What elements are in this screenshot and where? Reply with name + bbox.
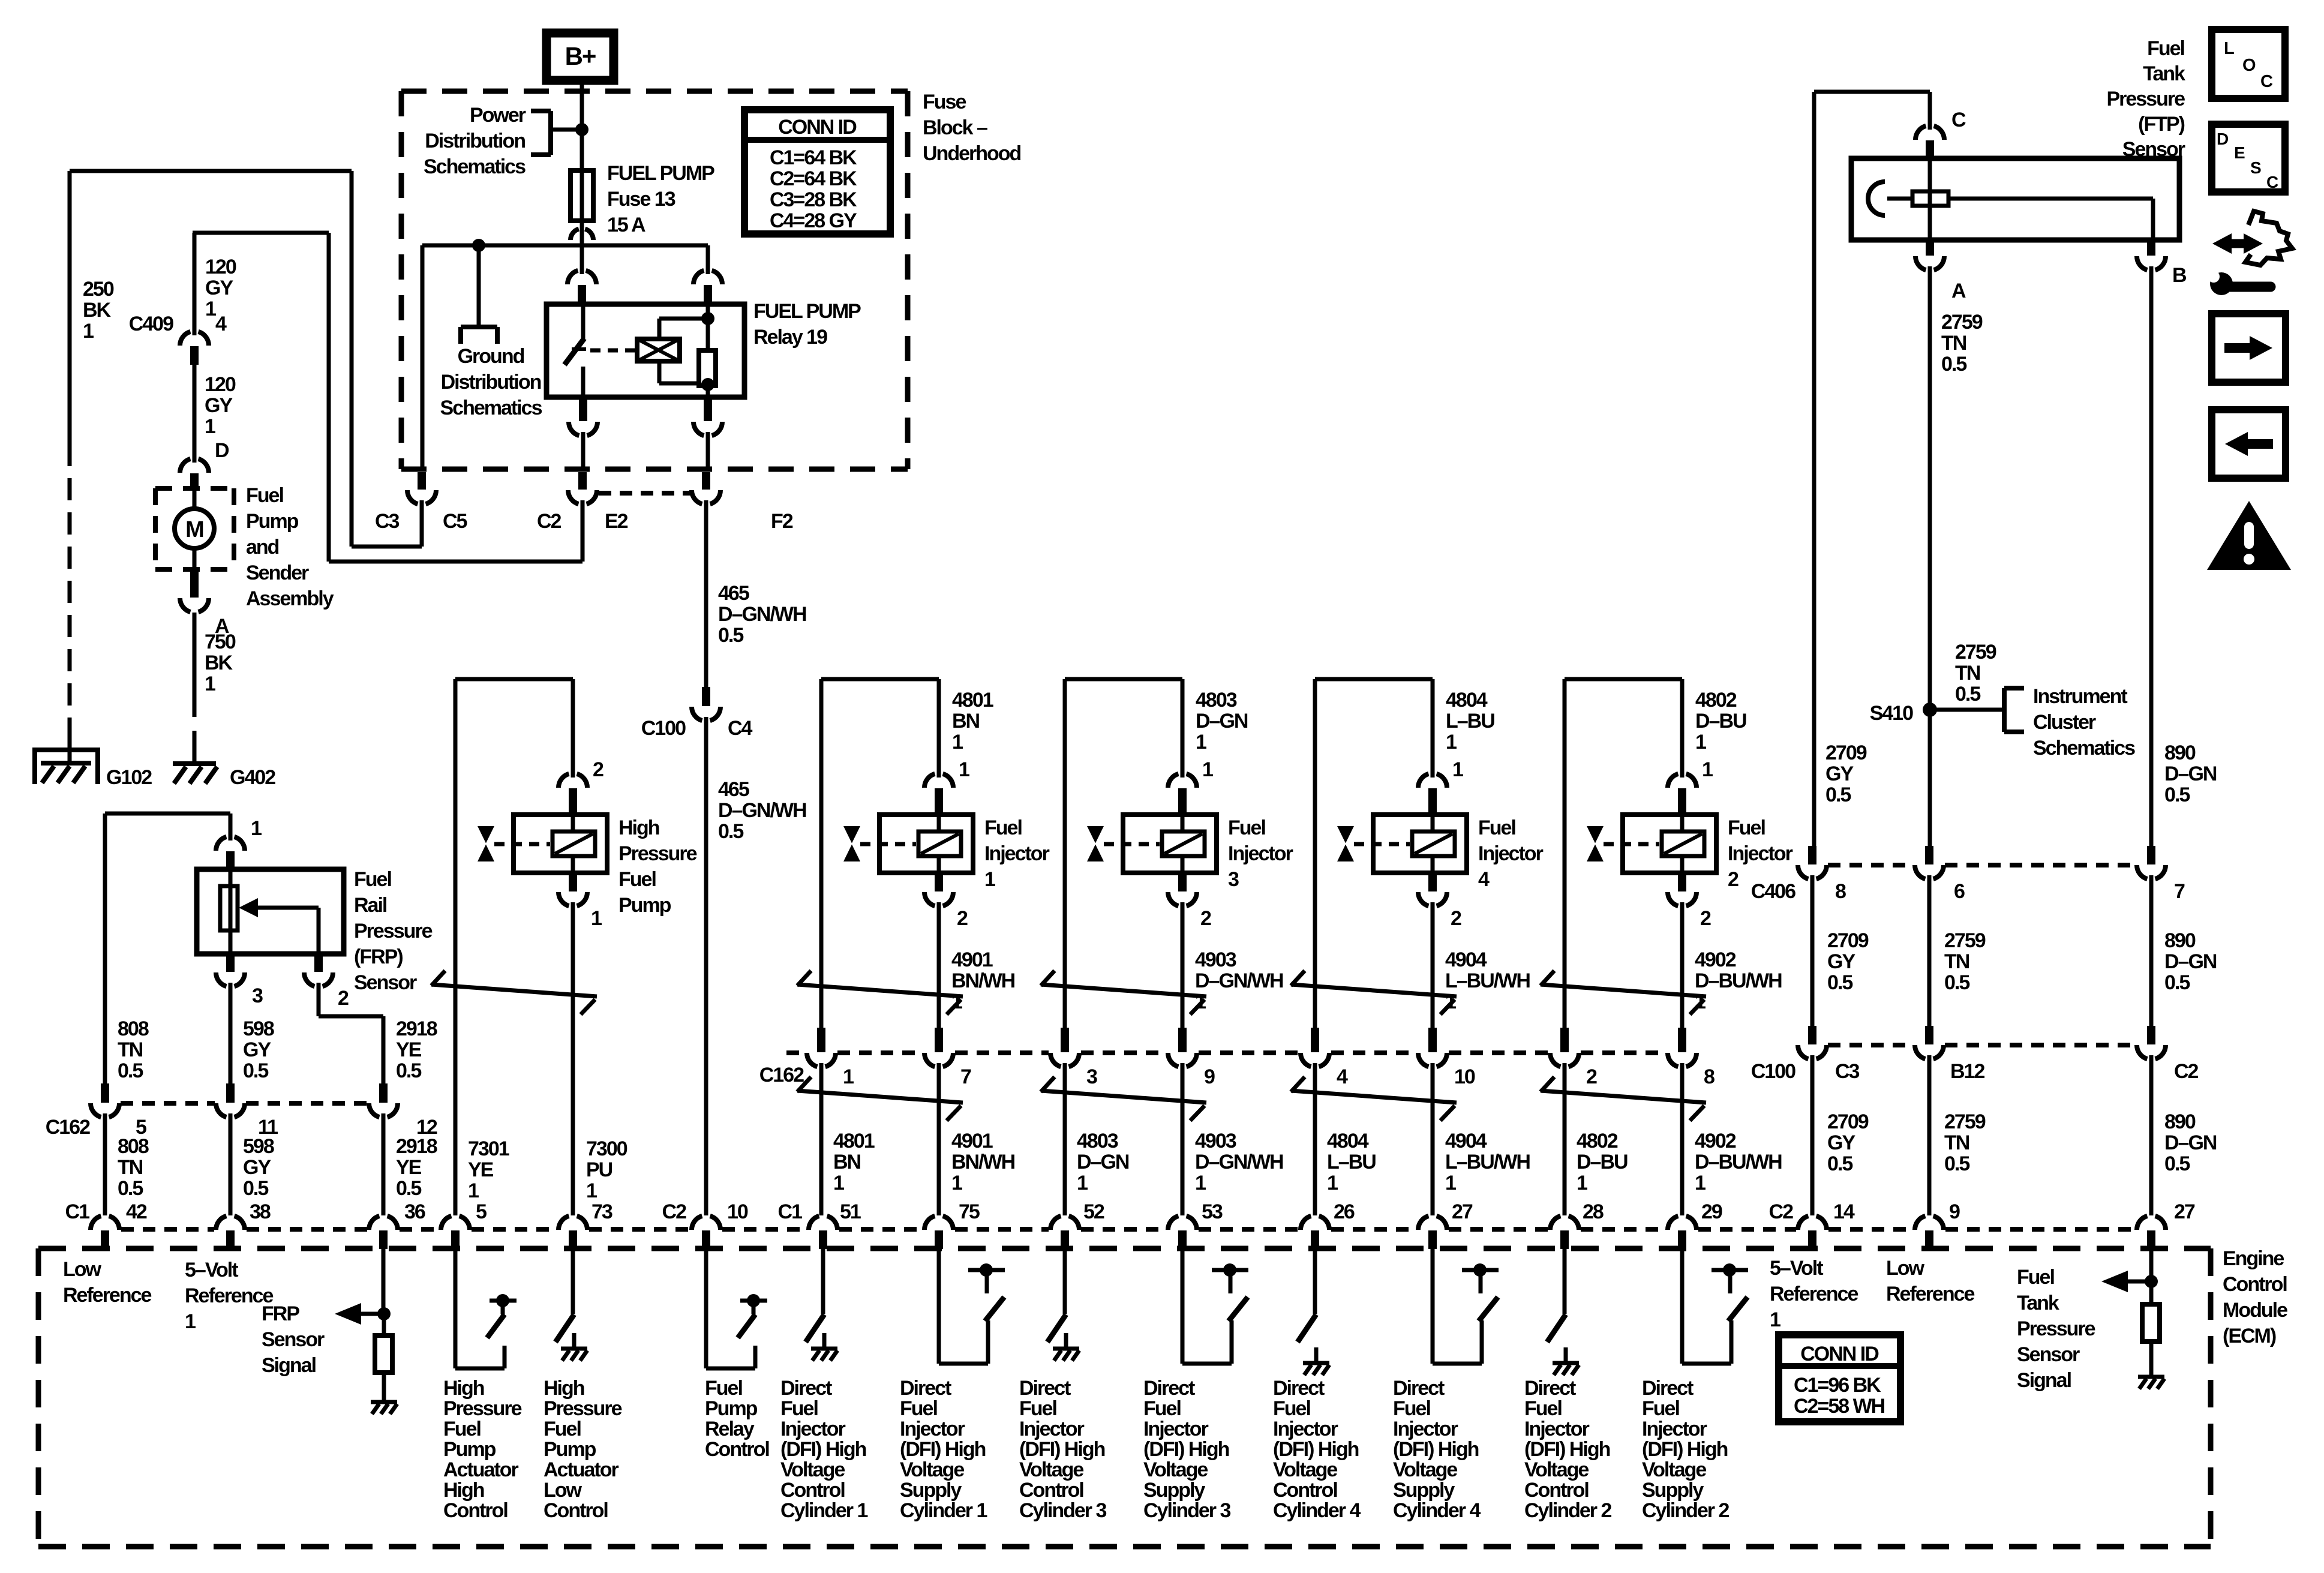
svg-text:C3=28 BK: C3=28 BK xyxy=(770,188,857,211)
label 465 D-GN/WH 0.5 lower xyxy=(718,778,806,843)
label ECM function High Pressure Fuel Control xyxy=(443,1377,522,1522)
svg-text:2: 2 xyxy=(1700,907,1711,930)
svg-text:2709: 2709 xyxy=(1827,1110,1869,1133)
connector C162 pin 4 xyxy=(1311,1028,1319,1052)
svg-text:1: 1 xyxy=(843,1065,854,1088)
wire 4903 injector 3 supply lower xyxy=(1181,1067,1185,1215)
valve actuation dashed link xyxy=(860,842,916,846)
fuse block - underhood dashed boundary xyxy=(401,91,908,469)
svg-text:C409: C409 xyxy=(129,313,173,335)
svg-text:Fuel: Fuel xyxy=(1642,1397,1679,1420)
svg-text:Fuel: Fuel xyxy=(618,868,656,891)
Fuel Injector 4 coil box xyxy=(1373,815,1467,873)
wire loop for Fuel 2 left side xyxy=(1565,679,1682,773)
svg-text:Injector: Injector xyxy=(1143,1418,1209,1440)
ECM supply driver switch at pin wire x=1565 xyxy=(939,1249,1005,1364)
relay suppression resistor xyxy=(699,350,716,386)
svg-text:(DFI) High: (DFI) High xyxy=(1143,1438,1229,1461)
svg-text:BK: BK xyxy=(205,652,233,674)
svg-text:4804: 4804 xyxy=(1327,1130,1369,1152)
svg-text:52: 52 xyxy=(1083,1200,1104,1223)
svg-text:Low: Low xyxy=(1886,1257,1925,1280)
label ECM function Fuel Pump Relay Control xyxy=(705,1377,769,1461)
label FUEL PUMP Relay 19 xyxy=(753,300,861,349)
svg-text:and: and xyxy=(246,536,279,559)
relay 19 switch side terminal connector xyxy=(568,271,578,284)
svg-text:Injector: Injector xyxy=(1273,1418,1338,1440)
ground distribution stub and bracket xyxy=(461,245,497,344)
svg-text:C3: C3 xyxy=(375,510,400,533)
ECM connectors at boundary xyxy=(91,1216,2166,1249)
wire 4802 injector 2 control lower xyxy=(1563,1067,1567,1215)
label 4902 D–BU/WH 1 lower xyxy=(1695,1130,1782,1194)
wire 598 GY from FRP pin 3 xyxy=(229,987,233,1083)
svg-text:Injector: Injector xyxy=(900,1418,965,1440)
wire loop for Fuel 1 left side xyxy=(821,679,939,773)
svg-text:D–BU: D–BU xyxy=(1577,1151,1628,1173)
ECM supply driver switch at pin wire x=2804 xyxy=(1682,1249,1748,1364)
wire B+ to fuse 13 xyxy=(580,80,584,170)
svg-text:1: 1 xyxy=(586,1179,597,1202)
connector C162 pin 9 xyxy=(1178,1028,1187,1052)
wire 2759 TN pin A down xyxy=(1928,271,1932,846)
label ECM function Direct Fuel Injector Cylinder 3 xyxy=(1019,1377,1106,1522)
label Fuel Injector 2 xyxy=(1728,816,1793,891)
svg-text:38: 38 xyxy=(250,1200,271,1223)
svg-text:Ground: Ground xyxy=(458,345,524,368)
svg-text:2: 2 xyxy=(1200,907,1211,930)
ECM control driver switch to ground at pin wire x=955 xyxy=(556,1249,587,1361)
label 2709 GY 0.5 mid xyxy=(1827,929,1869,994)
label Fuel Injector 3 xyxy=(1228,816,1293,891)
label 250 BK 1 xyxy=(83,278,114,343)
svg-text:GY: GY xyxy=(1827,950,1855,973)
svg-text:73: 73 xyxy=(591,1200,612,1223)
battery B+ terminal xyxy=(547,33,614,80)
svg-text:CONN ID: CONN ID xyxy=(778,116,857,139)
label 750 BK 1 xyxy=(205,631,236,695)
svg-text:(ECM): (ECM) xyxy=(2223,1325,2276,1347)
svg-text:7: 7 xyxy=(960,1065,971,1088)
svg-text:Fuel: Fuel xyxy=(2147,37,2184,60)
svg-text:750: 750 xyxy=(205,631,236,653)
svg-text:4804: 4804 xyxy=(1446,689,1488,712)
label ECM function Direct Fuel Injector Cylinder 3 xyxy=(1143,1377,1230,1522)
svg-text:Direct: Direct xyxy=(1273,1377,1325,1400)
svg-text:4801: 4801 xyxy=(952,689,993,712)
label 4801 BN 1 lower xyxy=(833,1130,875,1194)
label High Pressure Fuel Pump xyxy=(618,816,697,917)
svg-text:Cylinder 4: Cylinder 4 xyxy=(1393,1499,1481,1522)
svg-text:28: 28 xyxy=(1583,1200,1604,1223)
svg-text:Assembly: Assembly xyxy=(246,587,334,610)
label Fuel Tank Pressure Sensor Signal xyxy=(2017,1266,2095,1392)
svg-text:Fuel: Fuel xyxy=(1019,1397,1056,1420)
svg-text:TN: TN xyxy=(118,1038,143,1061)
svg-text:Control: Control xyxy=(780,1479,845,1502)
svg-text:FUEL PUMP: FUEL PUMP xyxy=(607,162,714,185)
svg-text:2: 2 xyxy=(338,987,349,1010)
svg-text:D–GN/WH: D–GN/WH xyxy=(1195,1151,1283,1173)
label 2918 YE 0.5 upper xyxy=(396,1017,437,1082)
svg-text:4: 4 xyxy=(1337,1065,1348,1088)
svg-text:Schematics: Schematics xyxy=(424,155,526,178)
label 7301 YE 1 xyxy=(468,1137,509,1202)
svg-text:250: 250 xyxy=(83,278,114,301)
label Instrument Cluster Schematics xyxy=(2033,685,2135,760)
connector C409 xyxy=(180,332,190,346)
svg-text:Voltage: Voltage xyxy=(1143,1458,1208,1481)
svg-text:Voltage: Voltage xyxy=(1019,1458,1083,1481)
connector C162 pin 7 xyxy=(935,1028,943,1052)
svg-text:(DFI) High: (DFI) High xyxy=(1393,1438,1479,1461)
diagnostic tool icon xyxy=(2208,211,2292,295)
ECM supply driver switch at pin wire x=1971 xyxy=(1182,1249,1248,1364)
svg-text:Direct: Direct xyxy=(1642,1377,1694,1400)
svg-text:Sensor: Sensor xyxy=(2017,1343,2080,1366)
svg-text:Schematics: Schematics xyxy=(440,397,542,419)
svg-text:C: C xyxy=(2266,173,2278,191)
label 598 GY 0.5 upper xyxy=(243,1017,274,1082)
fuel pump motor M xyxy=(175,488,214,570)
label 2918 YE 0.5 lower xyxy=(396,1135,437,1200)
svg-text:C2: C2 xyxy=(2174,1060,2199,1083)
svg-text:4802: 4802 xyxy=(1695,689,1737,712)
label Fuel Pump and Sender Assembly xyxy=(246,484,334,610)
svg-text:L: L xyxy=(2224,39,2234,58)
svg-text:High: High xyxy=(443,1479,484,1502)
svg-text:Power: Power xyxy=(470,104,526,127)
svg-text:Distribution: Distribution xyxy=(425,130,525,152)
connector pin 2 top of High Pressure Fuel Pump xyxy=(559,774,569,788)
left arrow icon xyxy=(2212,410,2286,478)
LOC reference icon xyxy=(2212,29,2285,98)
svg-text:Voltage: Voltage xyxy=(1273,1458,1337,1481)
svg-text:2: 2 xyxy=(593,758,603,781)
label 120 GY 1 lower xyxy=(205,373,236,438)
svg-text:Pump: Pump xyxy=(443,1438,496,1461)
svg-text:S410: S410 xyxy=(1870,702,1913,725)
svg-text:Voltage: Voltage xyxy=(1393,1458,1457,1481)
label Engine Control Module (ECM) xyxy=(2223,1247,2287,1347)
ECM control driver switch to ground at pin wire x=1775 xyxy=(1047,1249,1079,1361)
svg-text:TN: TN xyxy=(1941,332,1966,355)
twisted pair marker injector 4 lower xyxy=(1291,1091,1457,1103)
svg-text:D: D xyxy=(215,439,229,462)
connector C2-E2 at fuse block xyxy=(578,472,587,490)
svg-text:D–BU/WH: D–BU/WH xyxy=(1695,1151,1782,1173)
svg-text:BK: BK xyxy=(83,299,112,322)
wire bus to relay coil pin xyxy=(706,245,710,269)
svg-text:D–GN: D–GN xyxy=(1077,1151,1129,1173)
svg-text:C2: C2 xyxy=(1769,1200,1794,1223)
svg-text:Direct: Direct xyxy=(1393,1377,1445,1400)
connector pin 1 top of Fuel Injector 2 xyxy=(1668,774,1678,788)
svg-text:36: 36 xyxy=(404,1200,425,1223)
svg-text:BN: BN xyxy=(833,1151,861,1173)
wire 465 D-GN/WH to ECM pin 10 xyxy=(704,721,708,1215)
svg-text:1: 1 xyxy=(1195,1172,1206,1194)
relay coil box with X xyxy=(637,339,680,361)
svg-text:1: 1 xyxy=(205,298,216,320)
wire 4902 injector 2 supply upper xyxy=(1680,906,1685,1028)
ECM supply driver switch at pin wire x=2388 xyxy=(1433,1249,1499,1364)
svg-text:10: 10 xyxy=(1454,1065,1475,1088)
svg-text:0.5: 0.5 xyxy=(243,1177,268,1200)
solenoid valve symbol xyxy=(1587,826,1604,843)
svg-text:0.5: 0.5 xyxy=(1827,1152,1852,1175)
connector FRP pin 2 xyxy=(314,954,323,972)
label 2759 TN 0.5 below A xyxy=(1941,311,1983,376)
svg-text:Module: Module xyxy=(2223,1299,2287,1322)
fuse F13 FUEL PUMP 15A xyxy=(571,170,593,221)
label 808 TN 0.5 upper xyxy=(118,1017,149,1082)
svg-text:Low: Low xyxy=(544,1479,582,1502)
wire 4804 injector 4 control upper xyxy=(1313,679,1317,1028)
svg-text:GY: GY xyxy=(205,277,233,299)
twisted pair marker pump wires xyxy=(431,984,597,996)
connector C162 pin 8 xyxy=(1678,1028,1686,1052)
label 4802 D–BU 1 xyxy=(1695,689,1746,754)
label 4904 L–BU/WH 1 lower xyxy=(1445,1130,1530,1194)
svg-text:Fuel: Fuel xyxy=(246,484,283,507)
FRP sensor signal arrow and load xyxy=(335,1249,397,1414)
svg-text:Injector: Injector xyxy=(780,1418,846,1440)
svg-text:2918: 2918 xyxy=(396,1017,437,1040)
label Low Reference right xyxy=(1886,1257,1975,1305)
wire 4904 injector 4 supply upper xyxy=(1431,906,1435,1028)
svg-text:1: 1 xyxy=(205,673,215,695)
svg-text:1: 1 xyxy=(1077,1172,1088,1194)
valve actuation dashed link xyxy=(1604,842,1659,846)
wire 4801 injector 1 control upper xyxy=(819,679,824,1028)
svg-text:2759: 2759 xyxy=(1944,929,1986,952)
svg-text:0.5: 0.5 xyxy=(2164,1152,2190,1175)
svg-text:1: 1 xyxy=(205,415,215,438)
svg-text:Underhood: Underhood xyxy=(923,142,1021,165)
Fuel Injector 1 coil box xyxy=(879,815,973,873)
svg-text:8: 8 xyxy=(1704,1065,1715,1088)
svg-text:0.5: 0.5 xyxy=(2164,784,2190,806)
svg-text:PU: PU xyxy=(586,1158,612,1181)
svg-text:YE: YE xyxy=(396,1038,422,1061)
svg-text:Instrument: Instrument xyxy=(2033,685,2127,708)
svg-text:Tank: Tank xyxy=(2017,1292,2059,1314)
label Fuel Injector 1 xyxy=(984,816,1050,891)
ECM control driver switch to ground at pin wire x=1372 xyxy=(806,1249,837,1361)
relay coil branch wiring xyxy=(659,304,708,383)
label Ground Distribution Schematics xyxy=(440,345,542,419)
svg-text:L–BU: L–BU xyxy=(1446,710,1494,733)
wire 4901 injector 1 supply upper xyxy=(937,906,941,1028)
svg-text:Fuel: Fuel xyxy=(544,1418,581,1440)
svg-text:42: 42 xyxy=(126,1200,147,1223)
svg-text:26: 26 xyxy=(1334,1200,1355,1223)
svg-text:0.5: 0.5 xyxy=(1941,353,1966,376)
label ECM function High Pressure Fuel Control xyxy=(544,1377,622,1522)
label FRP Sensor Signal xyxy=(262,1302,325,1377)
relay output pin to socket connector xyxy=(569,397,597,469)
svg-text:0.5: 0.5 xyxy=(1955,683,1980,706)
svg-text:4901: 4901 xyxy=(951,1130,993,1152)
wire FRP sensor harness top loop xyxy=(105,813,230,1083)
svg-text:C2: C2 xyxy=(537,510,562,533)
svg-text:Cylinder 1: Cylinder 1 xyxy=(780,1499,867,1522)
connector A fuel pump xyxy=(180,570,209,612)
label 4901 BN/WH 1 xyxy=(951,948,1015,1013)
svg-text:C1: C1 xyxy=(778,1200,803,1223)
svg-text:C1: C1 xyxy=(65,1200,90,1223)
label 4804 L–BU 1 xyxy=(1446,689,1494,754)
wires C100 to ECM right xyxy=(1812,1059,2151,1215)
svg-text:L–BU/WH: L–BU/WH xyxy=(1445,1151,1530,1173)
valve actuation dashed link xyxy=(1354,842,1410,846)
wire 7301 YE pump high control to ECM pin 5 xyxy=(454,679,458,1215)
svg-text:1: 1 xyxy=(951,1172,962,1194)
svg-text:(FTP): (FTP) xyxy=(2138,113,2185,136)
svg-text:GY: GY xyxy=(1825,763,1854,785)
label 2709 GY 0.5 lower xyxy=(1827,1110,1869,1175)
svg-text:10: 10 xyxy=(727,1200,748,1223)
svg-text:2709: 2709 xyxy=(1827,929,1869,952)
svg-text:C: C xyxy=(1951,109,1966,131)
connector pin 2 bottom xyxy=(1428,873,1437,891)
label 7300 PU 1 xyxy=(586,1137,627,1202)
svg-text:Injector: Injector xyxy=(1228,842,1293,865)
svg-text:Pump: Pump xyxy=(544,1438,596,1461)
relay coil ground pin to socket connector xyxy=(693,386,722,469)
connector F2 at fuse block xyxy=(702,472,710,490)
svg-text:Relay: Relay xyxy=(705,1418,755,1440)
svg-text:E: E xyxy=(2234,143,2245,162)
svg-text:Pressure: Pressure xyxy=(2106,88,2185,110)
svg-text:Control: Control xyxy=(705,1438,769,1461)
svg-text:2759: 2759 xyxy=(1944,1110,1986,1133)
twisted pair marker injector 2 upper xyxy=(1541,984,1706,996)
wire C409 to fuel pump xyxy=(193,365,197,458)
svg-text:C1=96 BK: C1=96 BK xyxy=(1794,1374,1881,1397)
label 465 D-GN/WH 0.5 upper xyxy=(718,582,806,647)
svg-text:4904: 4904 xyxy=(1445,948,1487,971)
valve actuation dashed link xyxy=(494,842,550,846)
svg-text:Tank: Tank xyxy=(2143,62,2185,85)
svg-text:1: 1 xyxy=(1452,758,1463,781)
svg-text:Cylinder 4: Cylinder 4 xyxy=(1273,1499,1361,1522)
svg-text:2: 2 xyxy=(1728,868,1739,891)
svg-text:Cylinder 2: Cylinder 2 xyxy=(1524,1499,1611,1522)
wire 2918 YE from FRP pin 2 xyxy=(319,987,383,1083)
svg-text:808: 808 xyxy=(118,1135,149,1158)
Fuel Tank Pressure FTP Sensor box xyxy=(1851,158,2179,240)
label 890 D-GN 0.5 mid xyxy=(2164,929,2217,994)
label 2709 GY 0.5 above C406 xyxy=(1825,742,1867,806)
svg-text:Voltage: Voltage xyxy=(780,1458,845,1481)
label ECM function Direct Fuel Injector Cylinder 1 xyxy=(780,1377,867,1522)
svg-text:Pressure: Pressure xyxy=(443,1397,522,1420)
connector row C162 left xyxy=(91,1083,398,1118)
svg-text:TN: TN xyxy=(1944,1131,1969,1154)
svg-text:Engine: Engine xyxy=(2223,1247,2284,1270)
svg-text:D–GN/WH: D–GN/WH xyxy=(718,603,806,626)
svg-text:Direct: Direct xyxy=(1019,1377,1071,1400)
wire loop for Fuel 3 left side xyxy=(1065,679,1182,773)
svg-text:2759: 2759 xyxy=(1955,641,1996,664)
svg-text:1: 1 xyxy=(185,1310,196,1333)
svg-text:E2: E2 xyxy=(605,510,628,533)
twisted pair marker injector 3 lower xyxy=(1041,1091,1206,1103)
svg-text:51: 51 xyxy=(840,1200,861,1223)
svg-text:Voltage: Voltage xyxy=(1524,1458,1589,1481)
svg-text:Control: Control xyxy=(2223,1273,2287,1296)
twisted pair marker injector 1 lower xyxy=(797,1091,963,1103)
connector FTP pin C xyxy=(1915,126,1926,140)
label ECM function Direct Fuel Injector Cylinder 1 xyxy=(900,1377,987,1522)
svg-text:B+: B+ xyxy=(565,42,596,70)
svg-text:(DFI) High: (DFI) High xyxy=(900,1438,986,1461)
svg-text:7301: 7301 xyxy=(468,1137,509,1160)
solenoid valve symbol xyxy=(1337,826,1354,843)
label 4803 D–GN 1 lower xyxy=(1077,1130,1129,1194)
wire 120 GY circuit loop xyxy=(193,233,582,562)
svg-text:Pressure: Pressure xyxy=(544,1397,622,1420)
svg-text:D–GN/WH: D–GN/WH xyxy=(718,799,806,822)
svg-text:C2=64 BK: C2=64 BK xyxy=(770,167,857,190)
label 2759 TN 0.5 lower xyxy=(1944,1110,1986,1175)
svg-text:F2: F2 xyxy=(771,510,793,533)
twisted pair marker injector 2 lower xyxy=(1541,1091,1706,1103)
svg-text:27: 27 xyxy=(2174,1200,2195,1223)
svg-text:Reference: Reference xyxy=(185,1284,274,1307)
svg-text:TN: TN xyxy=(1944,950,1969,973)
label 4903 D–GN/WH 1 lower xyxy=(1195,1130,1283,1194)
label 5-Volt Reference 1 left xyxy=(185,1259,274,1333)
label 598 GY 0.5 lower xyxy=(243,1135,274,1200)
svg-text:Cluster: Cluster xyxy=(2033,711,2096,734)
label ECM function Direct Fuel Injector Cylinder 2 xyxy=(1642,1377,1729,1522)
svg-text:Direct: Direct xyxy=(1143,1377,1195,1400)
svg-text:9: 9 xyxy=(1204,1065,1215,1088)
svg-text:5: 5 xyxy=(476,1200,487,1223)
svg-text:C162: C162 xyxy=(759,1064,804,1086)
svg-text:1: 1 xyxy=(83,320,94,343)
wire 808 TN to ECM pin 42 xyxy=(103,1118,107,1215)
relay 19 coil side terminal connector xyxy=(693,271,704,284)
svg-text:(DFI) High: (DFI) High xyxy=(1019,1438,1105,1461)
svg-text:High: High xyxy=(544,1377,584,1400)
svg-text:4903: 4903 xyxy=(1195,1130,1236,1152)
svg-text:Fuel: Fuel xyxy=(780,1397,818,1420)
svg-text:D–GN: D–GN xyxy=(2164,763,2217,785)
svg-text:Pump: Pump xyxy=(246,510,299,533)
label Low Reference left xyxy=(63,1258,152,1307)
svg-text:4: 4 xyxy=(215,313,227,335)
svg-text:L–BU/WH: L–BU/WH xyxy=(1445,969,1530,992)
svg-text:D–GN: D–GN xyxy=(2164,950,2217,973)
label 2759 TN 0.5 mid xyxy=(1944,929,1986,994)
svg-text:1: 1 xyxy=(1577,1172,1587,1194)
svg-text:1: 1 xyxy=(1202,758,1213,781)
label 2759 TN 0.5 above S410 xyxy=(1955,641,1996,706)
connector FRP pin 1 xyxy=(216,837,226,851)
ECM driver switch with control input at pin wire x=759 xyxy=(455,1249,517,1368)
svg-text:Direct: Direct xyxy=(900,1377,951,1400)
connector pin 1 top of Fuel Injector 3 xyxy=(1168,774,1178,788)
wire fuse to relay switch pin xyxy=(580,245,584,269)
svg-text:GY: GY xyxy=(243,1038,271,1061)
svg-text:Pressure: Pressure xyxy=(2017,1317,2095,1340)
svg-text:4901: 4901 xyxy=(951,948,993,971)
label FUEL PUMP Fuse 13 15 A xyxy=(607,162,714,236)
